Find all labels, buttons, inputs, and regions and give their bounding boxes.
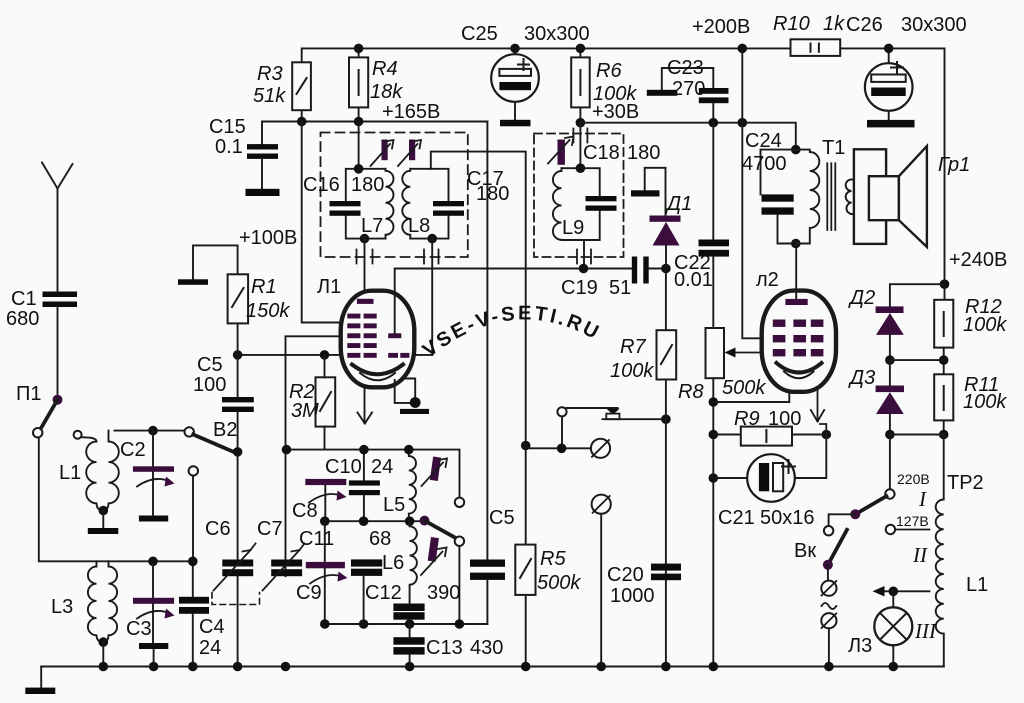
svg-text:30x300: 30x300 bbox=[901, 14, 967, 36]
svg-text:R10: R10 bbox=[773, 13, 810, 35]
transformer T1 secondary bbox=[846, 179, 854, 214]
svg-text:180: 180 bbox=[476, 183, 509, 205]
antenna bbox=[42, 163, 73, 292]
svg-text:51: 51 bbox=[609, 277, 631, 299]
inductor L3 left winding bbox=[88, 561, 103, 642]
ground C26 bbox=[867, 120, 915, 128]
wire L7 to tube anode top bbox=[364, 239, 366, 291]
inductor L1 left winding bbox=[74, 431, 104, 511]
transformer T1 core bbox=[827, 163, 835, 230]
svg-text:+240В: +240В bbox=[949, 249, 1007, 271]
wire L9 tank frame bbox=[562, 168, 600, 240]
wire +30V rail bbox=[580, 123, 795, 150]
node D2 D3 bbox=[885, 355, 895, 365]
svg-text:C19: C19 bbox=[561, 277, 598, 299]
node C21 left bbox=[709, 473, 719, 483]
tube L1 anode bar bbox=[388, 269, 401, 339]
wire L9 bottom to detector bbox=[583, 240, 585, 269]
node L8 bottom bbox=[427, 234, 437, 244]
wire B2 contact to bus bbox=[192, 476, 194, 667]
IF transformer can 2 dashed box bbox=[534, 134, 624, 258]
node R4 top bbox=[354, 44, 364, 54]
wire D3 R11 link bbox=[890, 434, 944, 436]
svg-text:18k: 18k bbox=[370, 81, 403, 103]
node L6 top bbox=[405, 516, 415, 526]
inductor L7 bbox=[386, 169, 394, 239]
feedthrough ticks box1 left bbox=[357, 250, 373, 264]
wire L3 to bus bbox=[102, 642, 104, 666]
svg-text:C5: C5 bbox=[197, 354, 223, 376]
svg-text:Д1: Д1 bbox=[665, 193, 692, 215]
svg-text:C18: C18 bbox=[583, 142, 620, 164]
node R5 top bbox=[521, 441, 531, 451]
svg-text:0.1: 0.1 bbox=[215, 136, 243, 158]
capacitor C3 variable bbox=[133, 561, 175, 666]
node C26 top bbox=[884, 44, 894, 54]
svg-text:C23: C23 bbox=[667, 57, 704, 79]
capacitor C5 coupling bbox=[470, 122, 505, 625]
tube L1 cathode arc bbox=[352, 365, 403, 375]
svg-text:C4: C4 bbox=[199, 616, 225, 638]
wire +165V rail bbox=[262, 122, 487, 145]
node trimmer chain bottom bbox=[455, 619, 465, 629]
node L5 top bbox=[404, 445, 414, 455]
svg-text:180: 180 bbox=[351, 174, 384, 196]
svg-text:50x16: 50x16 bbox=[760, 507, 815, 529]
node C3 top bbox=[148, 557, 158, 567]
svg-text:L9: L9 bbox=[562, 217, 584, 239]
wire oscillator mid bbox=[325, 520, 425, 522]
wire D2 cathode bbox=[890, 284, 945, 306]
capacitor C12 bbox=[393, 604, 424, 625]
svg-text:L1: L1 bbox=[966, 574, 988, 596]
potentiometer R8 bbox=[706, 328, 725, 667]
contact 127V bbox=[886, 525, 930, 534]
tube L2 inner arc bbox=[784, 372, 814, 379]
svg-text:Д3: Д3 bbox=[848, 367, 875, 389]
node C10 top bbox=[359, 445, 369, 455]
svg-text:24: 24 bbox=[371, 456, 393, 478]
dashed gang link bbox=[212, 593, 260, 605]
svg-text:C2: C2 bbox=[120, 439, 146, 461]
svg-text:л2: л2 bbox=[756, 269, 779, 291]
node L7 top bbox=[354, 164, 364, 174]
node R7 bottom bbox=[661, 414, 671, 424]
trimmer core C18 bbox=[548, 137, 574, 165]
tube L1 grid dashes bbox=[347, 314, 376, 358]
svg-text:Л3: Л3 bbox=[848, 635, 872, 657]
capacitor C21 electrolytic bbox=[713, 435, 826, 502]
resistor R1 bbox=[228, 274, 249, 355]
svg-text:270: 270 bbox=[672, 78, 705, 100]
IF transformer can 1 dashed box bbox=[321, 133, 468, 258]
bus nodes bbox=[99, 662, 899, 672]
capacitor C17 bbox=[433, 201, 464, 216]
tube L2 envelope bbox=[762, 291, 836, 392]
svg-text:C26: C26 bbox=[846, 14, 883, 36]
svg-text:Гр1: Гр1 bbox=[938, 154, 970, 176]
svg-text:III: III bbox=[914, 619, 937, 643]
node +30V cross bbox=[738, 118, 748, 128]
resistor R6 bbox=[571, 48, 590, 122]
wire D2 R12 link bbox=[890, 359, 944, 361]
wire screen row bbox=[238, 354, 433, 356]
svg-text:T1: T1 bbox=[822, 137, 845, 159]
node L7 bottom bbox=[360, 234, 370, 244]
node L1 bottom bbox=[99, 506, 109, 516]
lamp tap arrow bbox=[873, 586, 930, 597]
svg-text:L5: L5 bbox=[383, 494, 405, 516]
node R4 bottom bbox=[354, 117, 364, 127]
node R11 bottom bbox=[939, 430, 949, 440]
node jack row bbox=[557, 444, 567, 454]
wire tube cathode tap bbox=[713, 388, 789, 402]
svg-text:R5: R5 bbox=[540, 548, 566, 570]
svg-text:C7: C7 bbox=[257, 518, 283, 540]
R8 wiper arrow bbox=[725, 348, 762, 358]
node R3 bottom bbox=[297, 117, 307, 127]
feedthrough ticks box1 right bbox=[424, 250, 439, 264]
capacitor C16 bbox=[330, 201, 361, 216]
svg-text:C8: C8 bbox=[292, 500, 318, 522]
wire trimmer chain bbox=[458, 546, 460, 624]
svg-text:500k: 500k bbox=[722, 377, 766, 399]
tube L2 grid dashes bbox=[773, 320, 824, 357]
ground main bbox=[25, 667, 55, 695]
svg-text:100k: 100k bbox=[963, 314, 1007, 336]
tube L1 inner arc bbox=[360, 373, 395, 380]
svg-text:L1: L1 bbox=[59, 462, 81, 484]
svg-text:R3: R3 bbox=[257, 63, 283, 85]
wire jack row bbox=[526, 416, 591, 448]
trimmer core L8 bbox=[398, 140, 421, 167]
svg-text:C10: C10 bbox=[325, 456, 362, 478]
capacitor C20 bbox=[651, 564, 681, 581]
wire P1 to L3 bbox=[39, 437, 193, 561]
svg-text:C11: C11 bbox=[299, 528, 334, 550]
svg-text:В2: В2 bbox=[213, 419, 237, 441]
svg-text:C20: C20 bbox=[607, 564, 644, 586]
node C12 bottom bbox=[405, 619, 415, 629]
svg-text:C24: C24 bbox=[745, 130, 782, 152]
tube L1 top electrode bbox=[357, 299, 374, 304]
svg-text:R8: R8 bbox=[678, 381, 704, 403]
node C23 bottom bbox=[709, 118, 719, 128]
diode D3 bbox=[876, 360, 904, 434]
svg-text:127В: 127В bbox=[896, 513, 929, 529]
resistor R10 bbox=[791, 39, 841, 56]
tube L1 cathode arrow bbox=[358, 387, 373, 423]
svg-text:C1: C1 bbox=[11, 288, 37, 310]
svg-text:ТР2: ТР2 bbox=[947, 472, 984, 494]
svg-text:C21: C21 bbox=[718, 507, 755, 529]
svg-text:680: 680 bbox=[6, 308, 39, 330]
tube L1 envelope bbox=[341, 291, 415, 388]
node R6 top bbox=[576, 44, 586, 54]
ground C25 bbox=[500, 120, 531, 127]
tube L2 cathode arrow bbox=[811, 375, 827, 435]
resistor R2 bbox=[316, 355, 336, 450]
node C11 top bbox=[359, 516, 369, 526]
resistor R3 bbox=[292, 62, 311, 121]
svg-text:C12: C12 bbox=[365, 582, 402, 604]
inductor L9 bbox=[553, 168, 562, 240]
node R1 C5 bbox=[233, 350, 243, 360]
diode D2 bbox=[876, 306, 904, 360]
svg-text:3М: 3М bbox=[291, 400, 319, 422]
wire oscillator bottom bbox=[325, 623, 488, 625]
svg-text:100: 100 bbox=[768, 408, 801, 430]
node R2 top bbox=[320, 350, 330, 360]
capacitor C15 bbox=[247, 144, 278, 189]
contact L5 trimmer bbox=[455, 498, 464, 507]
capacitor C23 bbox=[647, 68, 729, 123]
svg-text:II: II bbox=[912, 543, 928, 567]
svg-text:C16: C16 bbox=[303, 174, 340, 196]
wire L8 bottom to screen bbox=[431, 239, 433, 355]
capacitor C7 variable gang bbox=[263, 544, 305, 591]
switch B2 bbox=[185, 427, 236, 475]
wire L8 tank frame bbox=[410, 169, 448, 239]
svg-text:+165В: +165В bbox=[382, 101, 440, 123]
inductor L8 bbox=[402, 169, 410, 239]
capacitor C8 variable bbox=[305, 479, 346, 521]
capacitor C13 bbox=[393, 624, 424, 667]
tube L2 top electrode bbox=[785, 244, 807, 306]
svg-text:L8: L8 bbox=[408, 215, 430, 237]
svg-text:R7: R7 bbox=[620, 336, 646, 358]
node T1 top bbox=[791, 145, 801, 155]
transformer TP2 winding bbox=[936, 435, 944, 667]
node L9 top bbox=[576, 163, 586, 173]
node C11 bottom bbox=[359, 619, 369, 629]
wire L7 tank frame bbox=[346, 169, 386, 239]
wire oscillator top bbox=[287, 450, 460, 498]
watermark bbox=[419, 302, 605, 361]
svg-text:430: 430 bbox=[470, 637, 503, 659]
resistor R4 bbox=[349, 48, 368, 168]
svg-text:Л1: Л1 bbox=[317, 276, 341, 298]
capacitor plate near D1 bbox=[631, 168, 666, 216]
tube L1 screen dashes bbox=[388, 353, 409, 358]
ground L1 bbox=[88, 511, 119, 535]
trimmer L5 bbox=[422, 457, 448, 486]
capacitor C26 electrolytic bbox=[865, 48, 913, 120]
node D3 bottom bbox=[885, 430, 895, 440]
capacitor C25 electrolytic bbox=[491, 48, 539, 119]
node L3 bottom bbox=[99, 637, 109, 647]
trimmer L6 bbox=[421, 537, 447, 575]
node +240V bbox=[940, 279, 950, 289]
svg-text:100k: 100k bbox=[963, 391, 1007, 413]
svg-text:68: 68 bbox=[369, 528, 391, 550]
node C2 top bbox=[148, 426, 158, 436]
tube L2 cathode arc bbox=[777, 363, 822, 373]
wire screen to +200V bbox=[742, 48, 761, 338]
node lamp top bbox=[889, 587, 899, 597]
tilde mains bbox=[822, 603, 837, 609]
svg-text:C5: C5 bbox=[489, 507, 515, 529]
capacitor L9 tank cap bbox=[586, 196, 617, 211]
transformer T1 primary bbox=[796, 150, 820, 244]
capacitor C19 bbox=[632, 257, 666, 284]
resistor R9 bbox=[713, 427, 826, 446]
svg-text:100k: 100k bbox=[610, 360, 654, 382]
svg-text:L3: L3 bbox=[51, 596, 73, 618]
resistor R5 bbox=[515, 545, 535, 667]
node R9 left bbox=[709, 430, 719, 440]
wire L8 top to oscillator line bbox=[431, 152, 526, 545]
ground R1 bbox=[178, 245, 238, 284]
node +200V junction bbox=[738, 44, 748, 54]
node D1 R7 bbox=[661, 264, 671, 274]
svg-text:220В: 220В bbox=[897, 471, 930, 487]
capacitor C11 bbox=[351, 559, 382, 624]
node R12 bottom bbox=[939, 355, 949, 365]
feedthrough ticks box2 top bbox=[573, 129, 587, 143]
svg-text:180: 180 bbox=[627, 142, 660, 164]
svg-text:L6: L6 bbox=[382, 552, 404, 574]
node R8 tube link bbox=[709, 397, 719, 407]
svg-text:C15: C15 bbox=[209, 116, 246, 138]
capacitor C9 variable bbox=[306, 521, 348, 624]
wire top supply bus bbox=[302, 48, 945, 284]
svg-text:1000: 1000 bbox=[610, 585, 655, 607]
svg-text:100: 100 bbox=[193, 374, 226, 396]
resistor R7 bbox=[657, 269, 677, 667]
ground C15 bbox=[246, 189, 280, 196]
inductor L3 right winding bbox=[103, 561, 117, 642]
node C25 top bbox=[510, 44, 520, 54]
svg-text:L7: L7 bbox=[361, 215, 383, 237]
wire AVC to grid bbox=[302, 122, 341, 323]
node C4 top bbox=[188, 557, 198, 567]
capacitor C5 input bbox=[222, 355, 254, 560]
node L9 detector bbox=[579, 264, 589, 274]
wire ground bus bbox=[41, 666, 944, 668]
svg-text:C3: C3 bbox=[126, 618, 152, 640]
resistor R11 bbox=[934, 374, 953, 434]
jack break contact bbox=[557, 407, 666, 419]
svg-text:C6: C6 bbox=[205, 518, 231, 540]
svg-text:+30В: +30В bbox=[592, 101, 639, 123]
svg-text:30x300: 30x300 bbox=[524, 23, 590, 45]
capacitor C1 bbox=[43, 292, 78, 396]
svg-text:R9: R9 bbox=[734, 408, 760, 430]
tube L1 cathode ground bbox=[395, 379, 429, 415]
node T1 bottom bbox=[791, 239, 801, 249]
jack socket 2 bbox=[592, 495, 611, 667]
svg-text:51k: 51k bbox=[253, 85, 286, 107]
jack socket 1 bbox=[591, 439, 610, 458]
node B2 lever tip bbox=[233, 447, 243, 457]
svg-text:4700: 4700 bbox=[742, 153, 787, 175]
svg-text:500k: 500k bbox=[537, 572, 581, 594]
svg-text:390: 390 bbox=[427, 582, 460, 604]
capacitor C10 bbox=[349, 450, 380, 522]
diode D1 bbox=[650, 216, 681, 269]
svg-text:C13: C13 bbox=[426, 637, 463, 659]
fuse plug lower bbox=[821, 613, 836, 666]
capacitor C24 bbox=[761, 150, 796, 244]
capacitor C6 variable gang bbox=[214, 544, 256, 667]
feedthrough ticks box2 bottom bbox=[577, 250, 591, 264]
speaker Gr1 bbox=[854, 146, 927, 247]
node R9 right bbox=[822, 430, 832, 440]
capacitor C22 bbox=[699, 123, 730, 328]
fuse plug upper bbox=[821, 581, 836, 596]
capacitor C4 bbox=[179, 597, 209, 614]
trimmer core L7 bbox=[371, 140, 394, 167]
wire L1 to B2 bbox=[115, 430, 189, 432]
switch band bbox=[420, 516, 465, 546]
wire osc grid feedback bbox=[286, 336, 341, 576]
svg-text:150k: 150k bbox=[246, 300, 290, 322]
lamp L3 bbox=[874, 591, 912, 666]
svg-text:R6: R6 bbox=[596, 60, 622, 82]
switch Vk lower bbox=[823, 530, 847, 581]
contact 220V bbox=[885, 489, 894, 498]
svg-text:R1: R1 bbox=[251, 276, 277, 298]
svg-text:C25: C25 bbox=[461, 23, 498, 45]
svg-text:C9: C9 bbox=[296, 582, 322, 604]
node R6 bottom bbox=[576, 118, 586, 128]
wire detector line bbox=[395, 268, 632, 270]
svg-text:1k: 1k bbox=[823, 13, 845, 35]
node osc grid bbox=[282, 445, 292, 455]
svg-text:+100В: +100В bbox=[239, 227, 297, 249]
inductor L5 bbox=[409, 450, 416, 522]
node C9 top bbox=[320, 516, 330, 526]
svg-text:П1: П1 bbox=[16, 383, 42, 405]
svg-text:24: 24 bbox=[199, 637, 221, 659]
svg-text:R4: R4 bbox=[372, 58, 398, 80]
svg-text:Вк: Вк bbox=[794, 540, 816, 562]
svg-text:Д2: Д2 bbox=[848, 287, 875, 309]
switch Vk upper bbox=[824, 496, 886, 535]
svg-text:0.01: 0.01 bbox=[674, 269, 713, 291]
switch P1 bbox=[33, 395, 63, 438]
svg-text:I: I bbox=[918, 487, 927, 511]
wire R6 to L9 tank bbox=[579, 123, 581, 169]
svg-text:+200В: +200В bbox=[692, 16, 750, 38]
capacitor C2 variable bbox=[133, 431, 175, 522]
wire 220V tap bbox=[889, 435, 891, 490]
resistor R12 bbox=[934, 284, 953, 374]
inductor L1 right winding bbox=[103, 431, 119, 511]
node C9 bottom bbox=[320, 619, 330, 629]
inductor L6 bbox=[410, 521, 417, 603]
